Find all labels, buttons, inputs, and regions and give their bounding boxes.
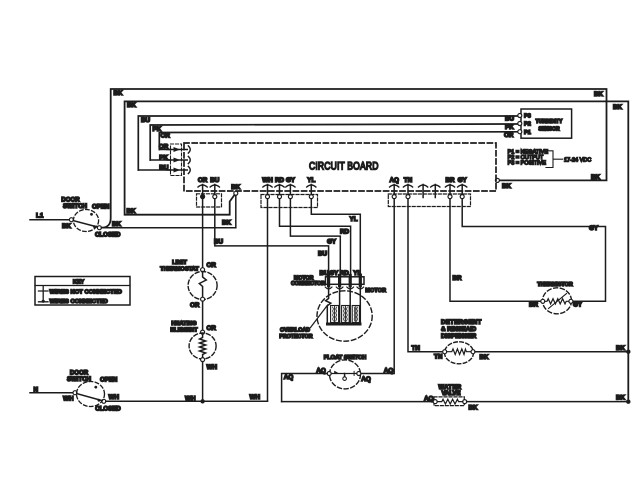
detergent dispenser: [441, 319, 489, 364]
svg-text:L1: L1: [36, 213, 44, 220]
svg-text:VALVE: VALVE: [441, 391, 460, 397]
wire GY from board to motor connector: [290, 199, 340, 276]
svg-text:WH: WH: [207, 364, 218, 371]
svg-text:BU: BU: [214, 239, 224, 246]
svg-text:BR: BR: [453, 275, 463, 282]
wire GY from board around thermistor loop: [462, 199, 605, 302]
svg-text:WIRES NOT CONNECTED: WIRES NOT CONNECTED: [50, 289, 122, 295]
connector housing around AQ TN BR GY pins: [388, 194, 470, 207]
svg-text:GY: GY: [286, 177, 296, 184]
junction dot valve line to net2: [626, 400, 630, 404]
svg-text:WH: WH: [250, 394, 261, 401]
svg-text:GY: GY: [589, 225, 599, 232]
svg-text:BU: BU: [210, 177, 220, 184]
water valve: [433, 385, 478, 411]
svg-text:WH: WH: [262, 177, 273, 184]
svg-text:TURBIDITY: TURBIDITY: [536, 119, 563, 125]
connector housing around WH RD GY YL pins: [261, 195, 318, 208]
wire BK dispenser to right vertical: [475, 351, 627, 353]
svg-text:BR: BR: [529, 301, 539, 308]
wire OR thermostat to heating element: [202, 301, 204, 330]
wire WH neutral bottom line: [106, 400, 268, 402]
wire BU top run to turbidity sensor: [138, 116, 518, 170]
door switch L1: [30, 197, 121, 239]
svg-text:P3: P3: [524, 114, 531, 120]
svg-text:& RINSEAID: & RINSEAID: [441, 326, 477, 333]
wire WH heating element to neutral line: [202, 362, 204, 402]
motor: [317, 286, 386, 341]
svg-text:THERMISTOR: THERMISTOR: [537, 282, 573, 288]
wire BK net1: door switch up left side, across top, down right, to board BK pin: [102, 89, 607, 228]
svg-text:KEY: KEY: [73, 280, 85, 286]
turbidity sensor legend: [508, 150, 592, 168]
svg-text:HEATING: HEATING: [171, 321, 197, 327]
svg-text:SENSOR: SENSOR: [538, 127, 560, 133]
svg-text:TN: TN: [404, 177, 413, 184]
pin RD on board: [275, 177, 285, 199]
wire BU from board to motor connector: [215, 199, 329, 276]
svg-text:WH: WH: [185, 395, 196, 402]
svg-text:PROTECTOR: PROTECTOR: [279, 334, 312, 340]
svg-text:CIRCUIT BOARD: CIRCUIT BOARD: [309, 161, 379, 173]
door switch N: [30, 370, 121, 413]
pin OR on board: [198, 177, 208, 199]
circuit board dashed outline: [184, 143, 496, 191]
wire YL from board to motor connector: [311, 199, 360, 276]
pin unused stub 2: [431, 185, 440, 198]
svg-text:BK: BK: [594, 91, 604, 98]
svg-text:P2: P2: [524, 122, 531, 128]
wire AQ from board to float switch: [361, 199, 394, 374]
wire BK from door switch to BK pin: [235, 195, 237, 227]
svg-text:RD: RD: [340, 229, 350, 236]
svg-text:OR: OR: [198, 177, 208, 184]
wire TN from board to dispenser: [408, 199, 443, 352]
svg-text:OR: OR: [161, 133, 171, 140]
svg-text:CONNECTOR: CONNECTOR: [291, 281, 325, 287]
wire AQ bottom line to water valve: [282, 401, 434, 403]
pin GY on board: [286, 177, 296, 199]
wire AQ float switch to bottom line: [282, 374, 328, 402]
svg-text:THERMOSTAT: THERMOSTAT: [160, 267, 199, 273]
wire BK valve to right vertical: [467, 401, 628, 403]
svg-text:OR: OR: [207, 262, 217, 269]
svg-text:OVERLOAD: OVERLOAD: [280, 328, 310, 334]
svg-text:AQ: AQ: [384, 367, 394, 374]
svg-text:DISPENSER: DISPENSER: [441, 333, 477, 340]
svg-text:BU: BU: [505, 116, 515, 123]
svg-text:CLOSED: CLOSED: [95, 406, 121, 413]
svg-text:TN: TN: [412, 345, 421, 352]
pin YL on board: [307, 177, 316, 199]
pin BU on board: [210, 177, 220, 199]
wire OR from board down to limit thermostat: [202, 199, 204, 268]
svg-text:GY: GY: [329, 270, 339, 277]
svg-text:BU: BU: [318, 251, 328, 258]
svg-text:BK: BK: [613, 104, 623, 111]
svg-text:BK: BK: [469, 404, 479, 411]
svg-text:RD: RD: [275, 177, 285, 184]
svg-text:WH: WH: [63, 396, 74, 403]
pin BR on board: [445, 177, 455, 199]
svg-text:BR: BR: [445, 177, 455, 184]
svg-text:OR: OR: [190, 302, 200, 309]
svg-text:GY: GY: [573, 301, 583, 308]
svg-text:LIMIT: LIMIT: [172, 260, 187, 266]
svg-text:WH: WH: [109, 394, 120, 401]
connector plugs OR PK BU into circuit board left edge: [167, 144, 190, 176]
pin GY right on board: [458, 177, 468, 199]
motor connector: [291, 270, 364, 289]
key box: [35, 277, 130, 306]
junction dot heating element on neutral line: [200, 399, 204, 403]
svg-text:GY: GY: [327, 239, 337, 246]
svg-text:P3 = POSITIVE: P3 = POSITIVE: [508, 160, 547, 166]
wire OR run to turbidity sensor: [159, 132, 518, 150]
svg-text:AQ: AQ: [361, 376, 371, 383]
svg-text:BK: BK: [114, 90, 124, 97]
svg-text:AQ: AQ: [284, 374, 294, 381]
pin TN on board: [403, 177, 412, 199]
pin WH on board: [262, 177, 273, 199]
svg-text:BK: BK: [62, 223, 72, 230]
wire RD from board to motor connector: [280, 199, 351, 276]
wire BK door switch to board BK pin: [101, 227, 235, 229]
node BK pin on circuit board right edge: [495, 178, 499, 182]
svg-text:BK: BK: [480, 354, 490, 361]
float switch: [284, 355, 394, 389]
svg-text:DETERGENT: DETERGENT: [441, 319, 482, 326]
svg-text:BK: BK: [502, 183, 512, 190]
svg-text:17-24 VDC: 17-24 VDC: [564, 157, 591, 163]
svg-text:YL: YL: [350, 216, 358, 223]
svg-text:AQ: AQ: [389, 177, 399, 184]
svg-text:ELEMENT: ELEMENT: [170, 328, 198, 334]
limit thermostat: [160, 260, 217, 309]
overload protector: [279, 305, 327, 340]
svg-text:OPEN: OPEN: [92, 204, 109, 211]
svg-text:BK: BK: [127, 102, 137, 109]
svg-text:BU: BU: [141, 117, 151, 124]
wire WH from board down to neutral line: [267, 199, 269, 402]
connector housing around OR BU pins: [197, 194, 222, 207]
svg-text:MOTOR: MOTOR: [365, 288, 386, 294]
wire BK net2: from board BK pin around lower loop to right side bottom: [125, 101, 629, 401]
pin unused stub 1: [419, 185, 428, 198]
svg-text:BK: BK: [112, 221, 122, 228]
svg-text:OPEN: OPEN: [100, 377, 117, 384]
turbidity sensor: [518, 109, 572, 138]
svg-text:BK: BK: [127, 208, 137, 215]
svg-text:BK: BK: [222, 220, 232, 227]
svg-text:AQ: AQ: [424, 395, 434, 402]
svg-text:TN: TN: [434, 354, 443, 361]
svg-text:YL: YL: [307, 177, 315, 184]
svg-text:OR: OR: [504, 132, 514, 139]
heating element: [170, 321, 217, 371]
svg-text:OR: OR: [207, 325, 217, 332]
junction dot dispenser line to net2: [626, 350, 630, 354]
svg-text:SWITCH: SWITCH: [63, 203, 87, 210]
wire PK run to turbidity sensor: [150, 124, 518, 160]
svg-text:CLOSED: CLOSED: [95, 232, 121, 239]
svg-text:WIRES CONNECTED: WIRES CONNECTED: [50, 299, 108, 305]
wire BR from board to thermistor: [450, 199, 541, 302]
svg-text:GY: GY: [458, 177, 468, 184]
pin BK on board: [231, 184, 241, 195]
svg-text:PK: PK: [505, 124, 514, 131]
svg-text:BK: BK: [231, 184, 241, 191]
svg-text:BK: BK: [591, 174, 601, 181]
svg-text:BK: BK: [616, 395, 626, 402]
pin AQ on board: [389, 177, 399, 199]
thermistor: [529, 282, 583, 314]
svg-text:P1: P1: [524, 130, 531, 136]
